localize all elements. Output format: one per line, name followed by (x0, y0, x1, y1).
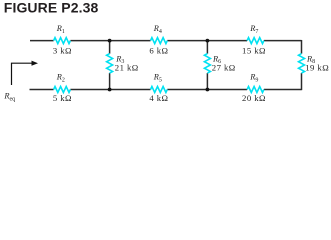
svg-text:R2: R2 (56, 73, 65, 84)
svg-text:27 kΩ: 27 kΩ (212, 62, 236, 72)
svg-text:3 kΩ: 3 kΩ (53, 46, 72, 56)
svg-text:R9: R9 (249, 73, 258, 84)
svg-text:4 kΩ: 4 kΩ (149, 93, 168, 103)
svg-text:R1: R1 (56, 24, 65, 35)
svg-text:6 kΩ: 6 kΩ (149, 46, 168, 56)
svg-text:R4: R4 (153, 24, 162, 35)
svg-text:21 kΩ: 21 kΩ (115, 62, 139, 72)
svg-text:R7: R7 (249, 24, 258, 35)
svg-text:5 kΩ: 5 kΩ (53, 93, 72, 103)
svg-text:19 kΩ: 19 kΩ (305, 62, 329, 72)
svg-text:FIGURE P2.38: FIGURE P2.38 (4, 0, 99, 16)
svg-text:20 kΩ: 20 kΩ (242, 93, 266, 103)
svg-text:R5: R5 (153, 73, 162, 84)
svg-text:15 kΩ: 15 kΩ (242, 46, 266, 56)
svg-text:Req: Req (3, 91, 15, 102)
